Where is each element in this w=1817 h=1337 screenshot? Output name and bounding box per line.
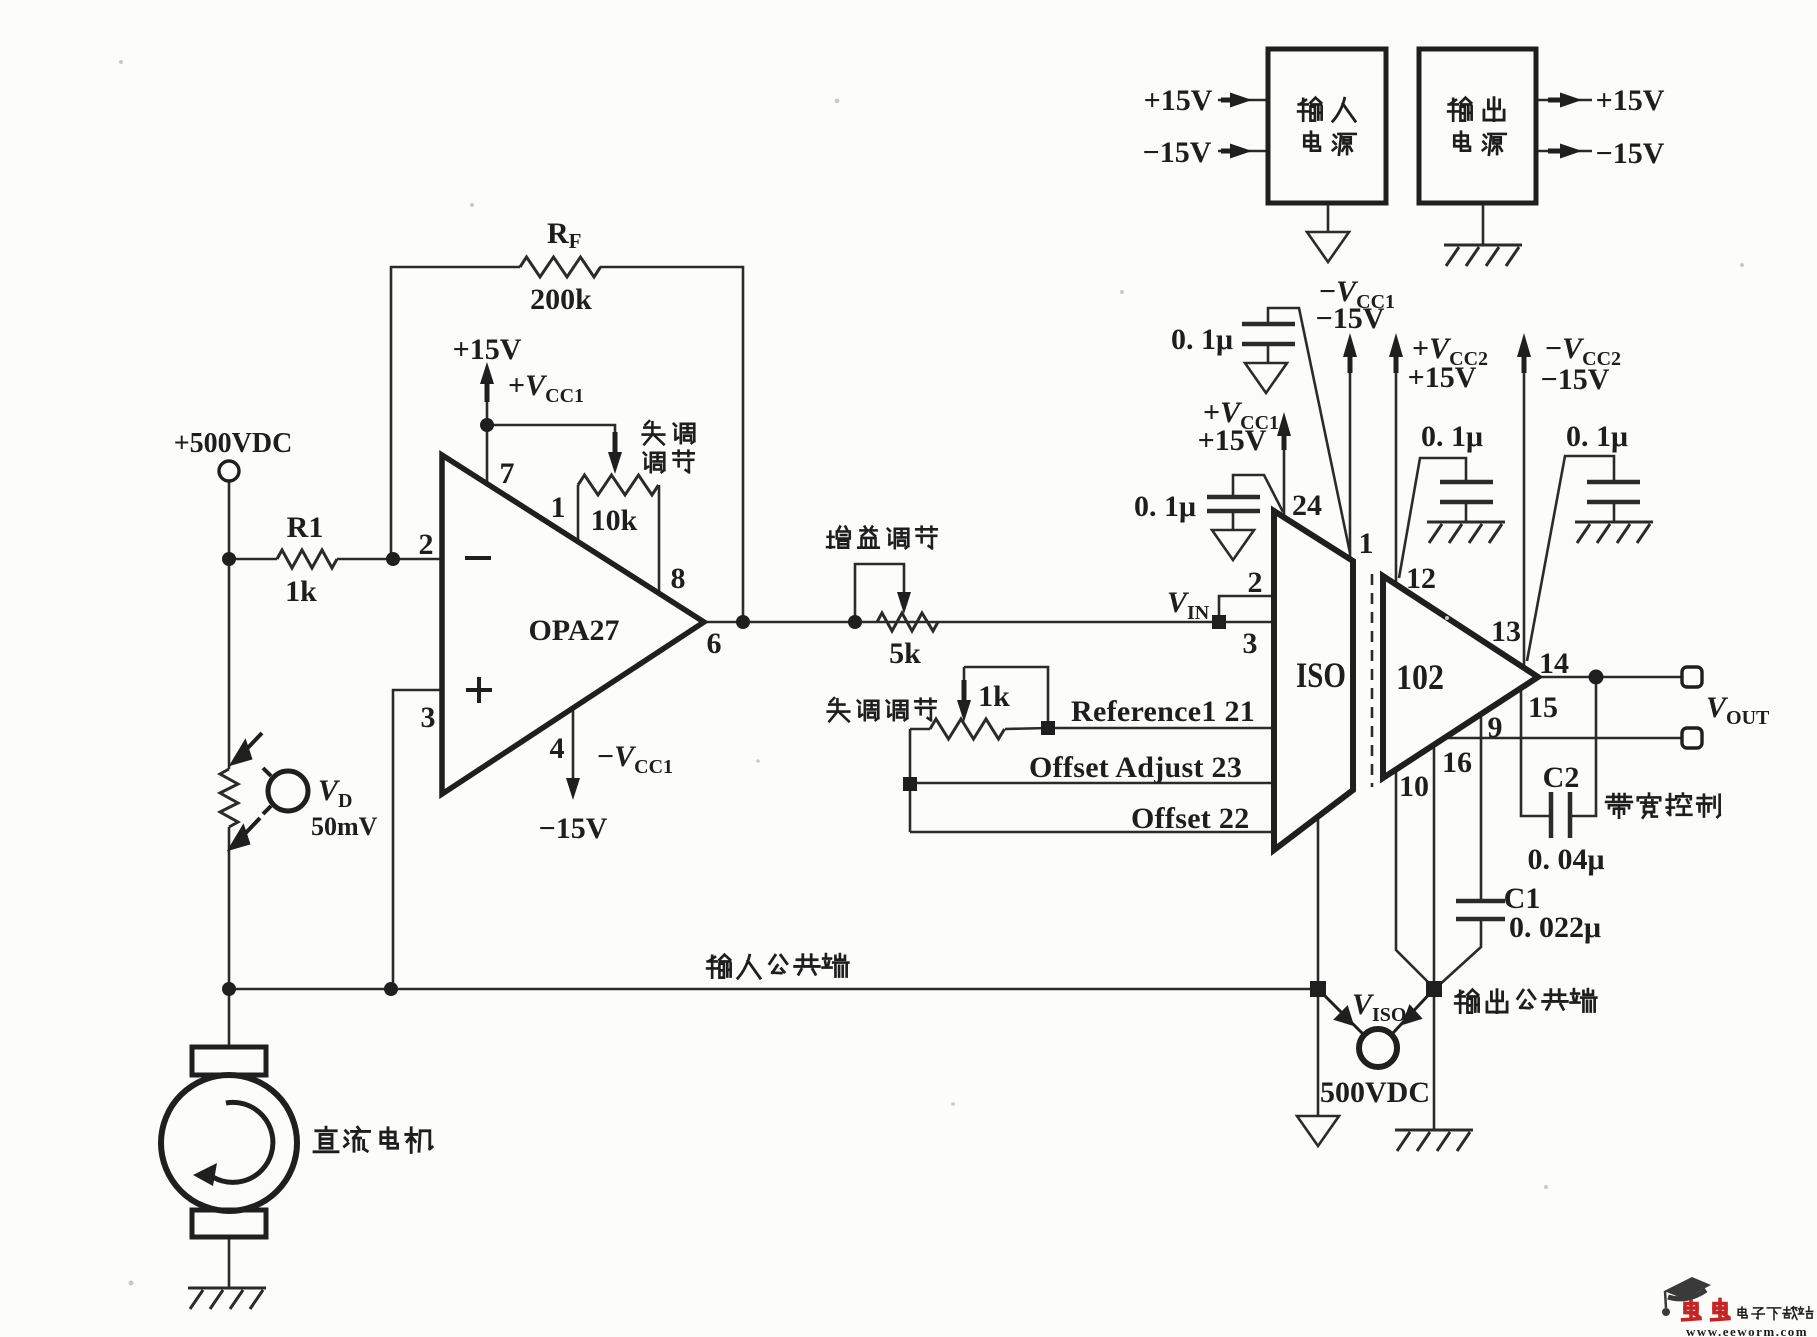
svg-text:VIN: VIN	[1167, 586, 1210, 624]
svg-text:+15V: +15V	[1198, 424, 1267, 457]
svg-text:R1: R1	[287, 511, 324, 544]
svg-text:9: 9	[1488, 711, 1503, 744]
svg-text:2: 2	[419, 528, 434, 561]
svg-text:−15V: −15V	[1541, 363, 1610, 396]
svg-text:6: 6	[707, 627, 722, 660]
svg-text:0. 1μ: 0. 1μ	[1566, 420, 1628, 453]
svg-text:1: 1	[551, 491, 566, 524]
svg-text:7: 7	[500, 457, 515, 490]
svg-text:−15V: −15V	[539, 812, 608, 845]
svg-text:0. 1μ: 0. 1μ	[1134, 490, 1196, 523]
svg-text:0. 04μ: 0. 04μ	[1527, 843, 1604, 876]
svg-text:Offset 22: Offset 22	[1131, 802, 1250, 835]
svg-text:+15V: +15V	[453, 333, 522, 366]
svg-text:3: 3	[1243, 627, 1258, 660]
svg-text:10k: 10k	[591, 504, 638, 537]
svg-text:VD: VD	[318, 774, 352, 812]
svg-text:10: 10	[1399, 770, 1429, 803]
svg-text:+15V: +15V	[1408, 361, 1477, 394]
svg-text:+VCC1: +VCC1	[508, 369, 584, 407]
svg-text:13: 13	[1491, 615, 1521, 648]
svg-text:ISO: ISO	[1296, 655, 1346, 695]
svg-text:www.eeworm.com: www.eeworm.com	[1686, 1324, 1808, 1337]
svg-text:OPA27: OPA27	[528, 614, 619, 647]
svg-text:1k: 1k	[978, 680, 1010, 713]
svg-text:4: 4	[550, 732, 565, 765]
svg-text:VISO: VISO	[1352, 988, 1406, 1026]
svg-text:−15V: −15V	[1316, 302, 1385, 335]
svg-text:102: 102	[1396, 657, 1444, 697]
svg-text:24: 24	[1292, 489, 1322, 522]
svg-text:VOUT: VOUT	[1706, 691, 1770, 729]
svg-text:16: 16	[1442, 746, 1472, 779]
svg-text:+500VDC: +500VDC	[174, 428, 293, 459]
svg-text:−VCC1: −VCC1	[597, 740, 673, 778]
svg-text:2: 2	[1248, 566, 1263, 599]
svg-text:RF: RF	[547, 217, 582, 253]
svg-text:1: 1	[1359, 527, 1374, 560]
svg-text:0. 1μ: 0. 1μ	[1421, 420, 1483, 453]
svg-text:−15V: −15V	[1143, 136, 1212, 169]
svg-text:−15V: −15V	[1596, 137, 1665, 170]
svg-text:14: 14	[1539, 647, 1569, 680]
svg-text:C2: C2	[1543, 761, 1580, 794]
svg-text:500VDC: 500VDC	[1320, 1076, 1430, 1109]
svg-text:+15V: +15V	[1144, 84, 1213, 117]
svg-text:50mV: 50mV	[311, 812, 378, 841]
svg-text:5k: 5k	[889, 637, 921, 670]
svg-text:Offset Adjust 23: Offset Adjust 23	[1029, 751, 1242, 784]
svg-text:Reference1 21: Reference1 21	[1071, 695, 1255, 728]
svg-text:12: 12	[1406, 562, 1436, 595]
svg-text:3: 3	[421, 701, 436, 734]
svg-text:0. 1μ: 0. 1μ	[1171, 323, 1233, 356]
svg-text:200k: 200k	[530, 283, 592, 316]
svg-text:15: 15	[1528, 691, 1558, 724]
svg-text:8: 8	[671, 562, 686, 595]
svg-text:+15V: +15V	[1596, 84, 1665, 117]
svg-text:1k: 1k	[285, 575, 317, 608]
svg-text:0. 022μ: 0. 022μ	[1509, 911, 1601, 944]
